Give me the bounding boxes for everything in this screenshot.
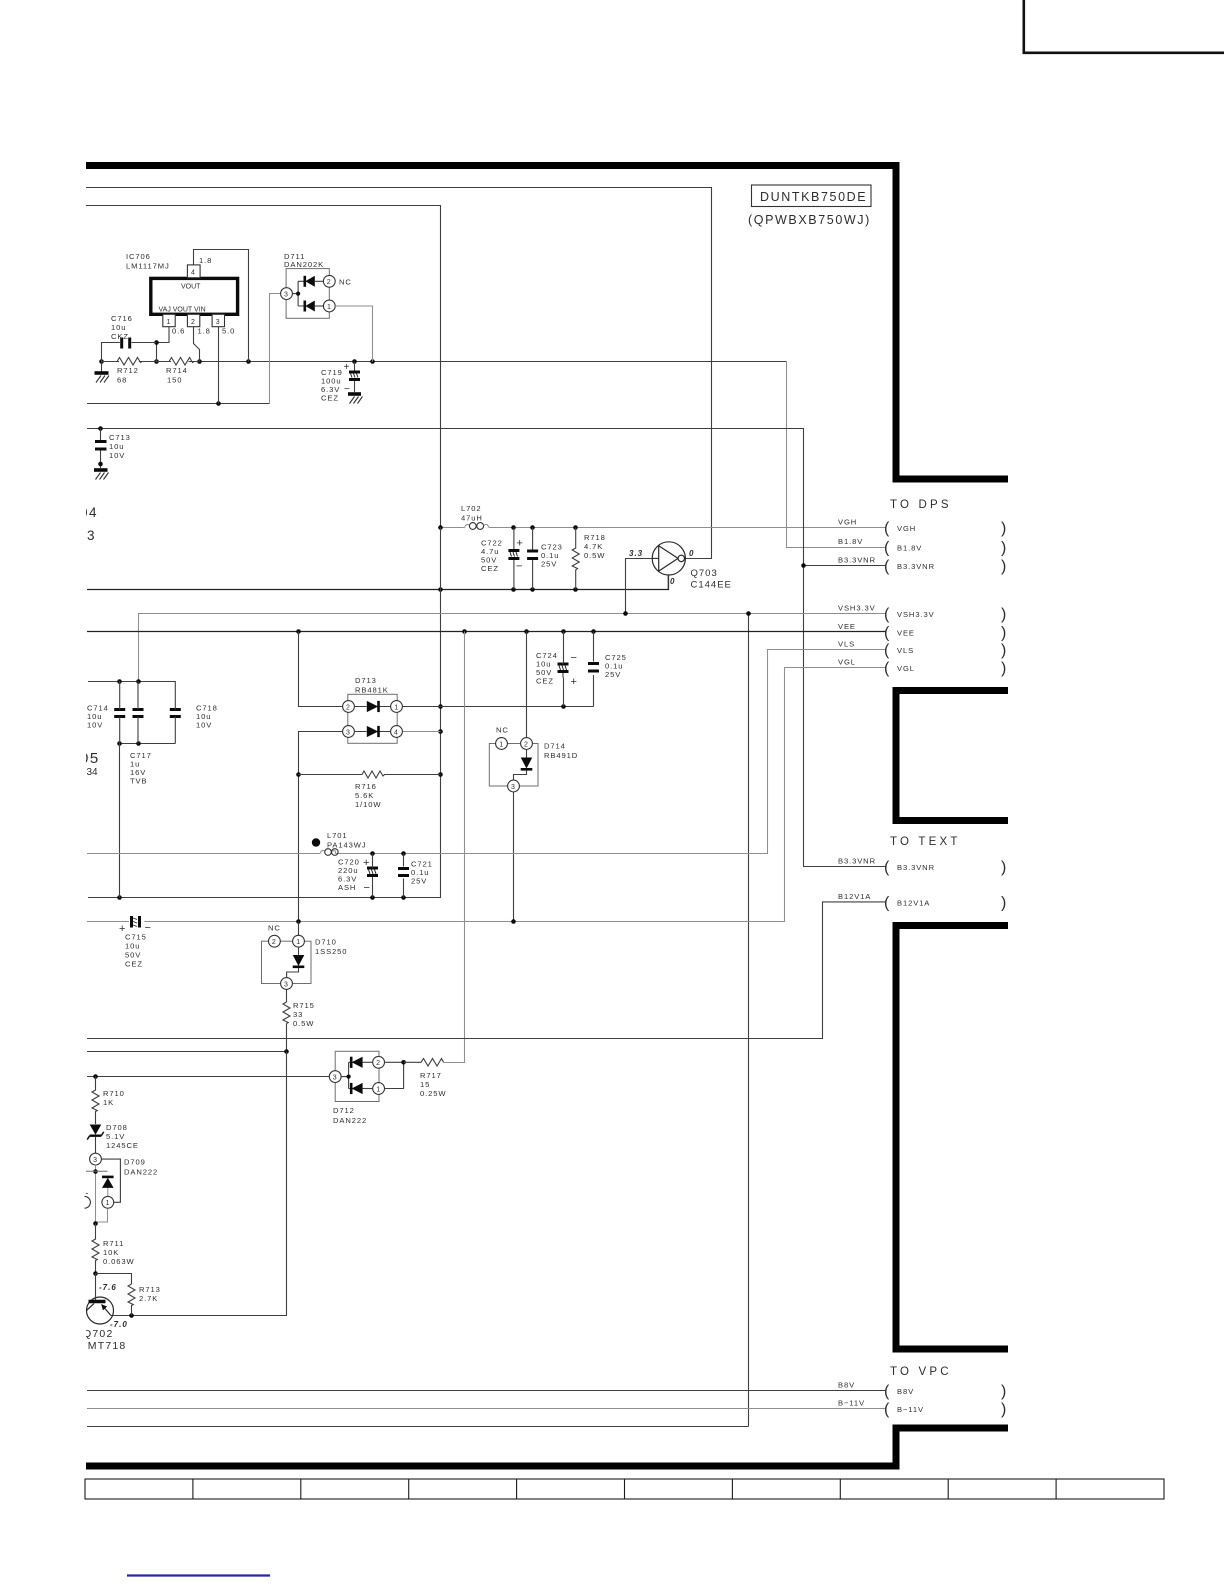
wire C720 stems — [372, 854, 374, 898]
svg-text:25V: 25V — [411, 877, 427, 886]
svg-text:+: + — [517, 538, 523, 550]
wire D711 pin1 to 1.8 rail (gray) — [335, 306, 372, 362]
svg-text:): ) — [1001, 1401, 1006, 1418]
wire riser to D711 pin3 (gray) — [270, 294, 281, 404]
svg-text:D714: D714 — [544, 742, 566, 751]
svg-text:5.6K: 5.6K — [355, 791, 374, 800]
svg-text:R717: R717 — [420, 1071, 442, 1080]
svg-text:1SS250: 1SS250 — [315, 947, 347, 956]
svg-text:VAJ VOUT VIN: VAJ VOUT VIN — [159, 307, 206, 314]
svg-text:R714: R714 — [166, 366, 188, 375]
D714 internal diode — [514, 749, 533, 780]
svg-text:C713: C713 — [109, 433, 131, 442]
svg-text:D712: D712 — [333, 1106, 355, 1115]
node dot R713 foot on emitter row — [129, 1313, 134, 1318]
node dot R710 top — [93, 1074, 98, 1079]
wire D714 pin3 drop to VGL rail — [513, 792, 515, 922]
svg-text:TVB: TVB — [130, 777, 147, 786]
D711 diode a (to pin2) — [305, 276, 324, 287]
svg-text:(: ( — [884, 1383, 890, 1400]
svg-text:(: ( — [884, 624, 890, 641]
D711 pin 1 circle — [323, 300, 335, 312]
TO VPC notch bottom arm — [893, 1425, 1009, 1432]
svg-text:10u: 10u — [109, 442, 124, 451]
svg-text:3: 3 — [346, 729, 350, 736]
node dots L701 rail — [370, 851, 406, 856]
svg-text:10V: 10V — [109, 451, 125, 460]
svg-text:4: 4 — [191, 270, 195, 277]
D710 internal diode — [287, 947, 305, 978]
svg-text:50V: 50V — [125, 951, 141, 960]
D710 pin 1 circle — [293, 935, 305, 947]
right border lower stub — [893, 1425, 900, 1467]
svg-text:): ) — [1001, 1383, 1006, 1400]
svg-text:(: ( — [884, 606, 890, 623]
svg-text:3: 3 — [333, 1074, 337, 1081]
wire B8V line y=1390.6 — [87, 1390, 887, 1392]
L701 polarity dot — [312, 838, 320, 846]
wire base node to R713 — [96, 1274, 132, 1285]
svg-text:1245CE: 1245CE — [106, 1141, 139, 1150]
right border segment between TEXT and VPC notches — [893, 922, 900, 1353]
svg-text:25V: 25V — [605, 670, 621, 679]
svg-text:): ) — [1001, 606, 1006, 623]
resistor R710 vertical — [92, 1077, 99, 1125]
node dots VSH rail — [623, 611, 751, 616]
D711 pin 3 circle — [281, 288, 293, 300]
capacitor C722 electrolytic — [508, 528, 519, 590]
svg-text:R718: R718 — [584, 533, 606, 542]
svg-text:VGH: VGH — [838, 518, 857, 527]
node dots C714 bottom rail — [117, 741, 141, 746]
svg-text:B8V: B8V — [897, 1387, 914, 1396]
svg-text:10V: 10V — [196, 721, 212, 730]
svg-text:−: − — [516, 561, 522, 573]
ground under R712 — [95, 362, 110, 383]
wire rail y=589.2 — [87, 575, 669, 589]
svg-text:0.25W: 0.25W — [420, 1089, 446, 1098]
wire pin1 to C716 node — [157, 327, 170, 362]
TO TEXT notch top arm — [893, 817, 1009, 824]
svg-text:): ) — [1001, 894, 1006, 911]
svg-text:CEZ: CEZ — [321, 394, 339, 403]
svg-text:D713: D713 — [355, 676, 377, 685]
svg-text:+: + — [344, 362, 351, 373]
wire B1.8V tail to connector (gray) — [787, 362, 887, 548]
svg-text:Q702: Q702 — [83, 1328, 114, 1340]
svg-text:1/10W: 1/10W — [355, 800, 381, 809]
svg-text:B−11V: B−11V — [838, 1399, 865, 1408]
capacitor C714 (left of group) — [114, 681, 125, 743]
svg-text:B3.3VNR: B3.3VNR — [838, 555, 876, 564]
resistor R712 — [102, 358, 157, 366]
svg-text:): ) — [1001, 540, 1006, 557]
svg-text:IC706: IC706 — [126, 252, 151, 261]
svg-text:150: 150 — [167, 376, 182, 385]
right border segment between DPS and TEXT notches — [893, 687, 900, 824]
svg-text:RB481K: RB481K — [355, 686, 389, 695]
svg-text:R712: R712 — [117, 366, 139, 375]
D712 diode b (pin1) cathode left — [351, 1083, 373, 1094]
D713 pin 3 circle — [343, 726, 355, 738]
svg-text:VLS: VLS — [838, 640, 855, 649]
svg-text:B1.8V: B1.8V — [838, 537, 863, 546]
svg-text:D710: D710 — [315, 938, 337, 947]
TO DPS notch top arm — [893, 476, 1009, 483]
node dots on 1.8V rail — [99, 359, 375, 364]
capacitor C718 (right of group) — [170, 681, 181, 743]
connector VGL — [838, 658, 1006, 678]
svg-text:CEZ: CEZ — [481, 564, 499, 573]
resistor R717 — [404, 1059, 444, 1067]
svg-text:33: 33 — [293, 1010, 303, 1019]
wire C725 stems — [593, 632, 595, 707]
IC706 pin 4 box — [187, 265, 200, 278]
svg-text:D709: D709 — [124, 1158, 146, 1167]
svg-text:(: ( — [884, 520, 890, 537]
svg-text:DUNTKB750DE: DUNTKB750DE — [760, 190, 867, 204]
svg-text:3: 3 — [216, 319, 220, 326]
svg-text:15: 15 — [420, 1080, 430, 1089]
wire VSH riser x=748.3 down to bottom line y=1426 — [87, 614, 749, 1427]
connector B-11V — [838, 1399, 1006, 1419]
connector VSH3.3V — [838, 604, 1006, 624]
svg-text:(: ( — [884, 894, 890, 911]
svg-text:5.0: 5.0 — [222, 327, 235, 336]
svg-text:1.8: 1.8 — [198, 327, 211, 336]
svg-text:C144EE: C144EE — [691, 580, 732, 591]
resistor R714 — [157, 358, 200, 366]
wire VSH3.3V rail y=613.7 (gray) — [139, 614, 887, 682]
wire net VIN 5.0 rail y=403.5 — [87, 403, 270, 405]
schematic sheet top border — [86, 162, 900, 169]
svg-text:D708: D708 — [106, 1123, 128, 1132]
svg-text:VLS: VLS — [897, 646, 914, 655]
wire pin4 riser to 1.8 net — [194, 250, 249, 362]
svg-text:0: 0 — [670, 577, 675, 586]
svg-text:VGL: VGL — [897, 664, 915, 673]
board name box DUNTKB750DE — [752, 185, 872, 207]
node dot R715 foot — [284, 1049, 289, 1054]
svg-text:0.5W: 0.5W — [293, 1019, 314, 1028]
D710 pin 3 circle — [281, 978, 293, 990]
svg-text:VGH: VGH — [897, 524, 916, 533]
svg-text:0.063W: 0.063W — [103, 1257, 135, 1266]
svg-text:): ) — [1001, 642, 1006, 659]
adjacent sheet corner mark top-right — [1024, 0, 1224, 53]
svg-text:VSH3.3V: VSH3.3V — [838, 604, 876, 613]
svg-text:1: 1 — [499, 741, 503, 748]
node dot D709 return — [93, 1221, 98, 1226]
svg-text:NC: NC — [496, 726, 509, 735]
svg-text:3.3: 3.3 — [629, 549, 643, 558]
svg-text:LM1117MJ: LM1117MJ — [126, 262, 170, 271]
capacitor C717 (middle of group) — [133, 681, 144, 743]
connector VEE — [838, 622, 1006, 642]
wire D709 pin1 return (gray) — [96, 1208, 108, 1222]
svg-text:DAN222: DAN222 — [124, 1168, 158, 1177]
svg-text:VEE: VEE — [897, 628, 915, 637]
wire D713 pin4 row (gray) — [403, 731, 441, 733]
wire x=440 spine down to C720/C721 bottom rail y=897.3 — [88, 528, 441, 898]
svg-text:NC: NC — [268, 924, 281, 933]
capacitor C716 plates — [122, 338, 130, 349]
TO VPC notch top arm — [893, 1346, 1009, 1353]
svg-text:Q703: Q703 — [691, 568, 718, 579]
diode D714 RB491D outline box — [489, 744, 538, 787]
wire pin2 down to 1.8 rail — [194, 327, 200, 362]
footer revision table — [85, 1479, 1164, 1499]
node dot pins join — [401, 1060, 406, 1065]
svg-text:2: 2 — [376, 1060, 380, 1067]
node dots on VGL rail — [296, 919, 516, 924]
D709 internal diode cathode up — [102, 1177, 114, 1196]
svg-text:(: ( — [884, 1401, 890, 1418]
node dot pin3 VIN drop — [216, 401, 221, 406]
node dot pin1/C716 — [154, 340, 159, 345]
connector B3.3VNR (TEXT) — [838, 857, 1006, 877]
D711 internal common cathode wiring — [292, 281, 303, 306]
ground under C713 — [94, 470, 109, 480]
svg-text:R713: R713 — [139, 1285, 161, 1294]
svg-text:TO TEXT: TO TEXT — [890, 836, 961, 848]
wire D713 pin1 row y=706.4 — [403, 706, 594, 708]
svg-text:TO VPC: TO VPC — [890, 1366, 952, 1378]
svg-text:): ) — [1001, 859, 1006, 876]
svg-text:R715: R715 — [293, 1001, 315, 1010]
svg-text:(: ( — [884, 540, 890, 557]
svg-text:2: 2 — [272, 939, 276, 946]
node dots pin1 row — [561, 704, 566, 709]
resistor R718 vertical — [572, 528, 579, 590]
svg-text:CEZ: CEZ — [125, 960, 143, 969]
svg-text:10V: 10V — [87, 721, 103, 730]
IC706 pin 1 box — [163, 314, 175, 326]
svg-text:B1.8V: B1.8V — [897, 544, 922, 553]
svg-text:68: 68 — [117, 376, 127, 385]
page cut mask left edge (emulates sheet cut at x=86) — [0, 495, 86, 1354]
capacitor C715 electrolytic inline — [132, 916, 140, 928]
capacitor C723 — [527, 528, 538, 590]
regulator IC706 LM1117MJ body — [151, 278, 238, 314]
svg-text:DAN202K: DAN202K — [284, 260, 324, 269]
D713 diode b pins 3-4 — [354, 726, 390, 737]
connector B3.3VNR (DPS) — [838, 555, 1006, 575]
connector VGH — [838, 518, 1006, 538]
svg-text:1K: 1K — [103, 1098, 114, 1107]
D709 pin 2 circle cut at page edge — [85, 1196, 91, 1208]
wire C721 stems — [403, 854, 405, 898]
svg-text:B8V: B8V — [838, 1381, 855, 1390]
svg-text:+: + — [571, 676, 577, 688]
D714 pin 2 circle — [521, 738, 533, 750]
zener diode D708 — [87, 1125, 104, 1154]
schematic sheet right border upper segment — [893, 162, 900, 479]
svg-text:UMT718: UMT718 — [79, 1340, 126, 1352]
resistor R715 vertical — [283, 1002, 290, 1024]
svg-text:3: 3 — [93, 1157, 97, 1164]
svg-text:RB491D: RB491D — [544, 751, 578, 760]
wire D714 pin2 feed from VEE — [526, 632, 528, 738]
svg-text:C716: C716 — [111, 314, 133, 323]
dual diode D712 DAN222 outline box — [335, 1051, 379, 1101]
svg-text:1: 1 — [296, 939, 300, 946]
svg-text:1: 1 — [376, 1086, 380, 1093]
svg-text:1: 1 — [167, 319, 171, 326]
node dots rail y=589.2 — [438, 587, 578, 592]
wire D709 center column (gray) — [95, 1165, 97, 1224]
svg-text:2: 2 — [191, 319, 195, 326]
svg-text:R711: R711 — [103, 1239, 124, 1248]
svg-text:47uH: 47uH — [461, 514, 483, 523]
D713 pin 4 circle — [391, 726, 403, 738]
D712 diode a (pin2) cathode left — [351, 1057, 373, 1068]
svg-text:3: 3 — [87, 528, 95, 543]
wire R715 spine down to Q702 emitter row — [111, 1052, 287, 1316]
wire B12V1A net: connector left then down x=822.3 then y=1037.7 to cut edge — [87, 902, 887, 1039]
svg-text:B3.3VNR: B3.3VNR — [838, 857, 876, 866]
wire pin3 down crossing to VIN rail — [218, 327, 220, 404]
svg-text:10u: 10u — [111, 323, 126, 332]
D712 internal common anode wiring — [341, 1062, 351, 1088]
IC706 pin 3 box — [212, 314, 224, 326]
svg-text:+: + — [363, 857, 369, 869]
wire C714 group top rail y=681 — [88, 681, 176, 683]
wire net B3.3VNR y=428 across to x=803.3 — [87, 429, 887, 867]
svg-text:L702: L702 — [461, 504, 482, 513]
svg-text:−: − — [571, 652, 577, 664]
svg-text:-7.6: -7.6 — [99, 1283, 117, 1292]
svg-text:NC: NC — [339, 278, 352, 287]
wire D713 pin2 feed from VEE rail — [299, 632, 343, 707]
TO TEXT notch bottom arm — [893, 922, 1009, 929]
wire VGL net: connector to x=784.8 then C715/D710 rail y=921.7 (gray) — [87, 668, 887, 922]
wire link x=119.7 from C714 rail down to y=897.3 — [119, 744, 121, 898]
svg-text:R710: R710 — [103, 1089, 125, 1098]
svg-text:): ) — [1001, 520, 1006, 537]
transistor Q702 UMT718 — [87, 1274, 114, 1325]
diode D709 DAN222 pin 3 circle — [90, 1153, 102, 1165]
capacitor C725 — [588, 664, 599, 672]
D714 pin 1 circle (NC) — [496, 738, 508, 750]
connector B8V — [838, 1381, 1006, 1401]
ground under C719 — [348, 394, 363, 404]
wire VEE rail y=631.8 — [87, 631, 887, 633]
D709 pin 1 circle — [102, 1196, 114, 1208]
svg-text:VGL: VGL — [838, 658, 856, 667]
svg-text:0.6: 0.6 — [172, 327, 185, 336]
svg-text:B3.3VNR: B3.3VNR — [897, 863, 935, 872]
svg-text:2: 2 — [346, 704, 350, 711]
D712 pin 3 circle — [329, 1071, 341, 1083]
capacitor C721 — [398, 869, 409, 876]
svg-text:0.5W: 0.5W — [584, 551, 605, 560]
svg-text:(: ( — [884, 642, 890, 659]
wire stub y=1051.4 from cut edge to R715 foot — [87, 1051, 287, 1053]
capacitor C724 electrolytic — [558, 663, 569, 678]
D714 pin 3 circle — [508, 780, 520, 792]
connector B1.8V — [838, 537, 1006, 557]
svg-text:2: 2 — [524, 741, 528, 748]
svg-text:10K: 10K — [103, 1248, 119, 1257]
resistor R713 vertical — [128, 1284, 135, 1315]
D712 pin 1 circle — [373, 1083, 385, 1095]
svg-text:B12V1A: B12V1A — [897, 898, 930, 907]
dual diode D711 DAN202K outline box — [286, 269, 329, 319]
svg-text:VEE: VEE — [838, 622, 856, 631]
wire net top rail y=205 feeding L702 column x=440 — [86, 206, 441, 528]
D711 pin 2 circle — [323, 275, 335, 287]
transistor Q703 C144EE (buffer symbol) — [652, 542, 685, 589]
D710 pin 2 circle (NC) — [269, 935, 281, 947]
node dot R711 foot / base node — [93, 1271, 98, 1276]
wire VGH rail y=527.5 (gray) — [441, 527, 887, 529]
svg-text:0: 0 — [689, 549, 694, 558]
svg-text:): ) — [1001, 624, 1006, 641]
svg-text:(: ( — [884, 660, 890, 677]
D713 diode a pins 2-1 — [354, 701, 390, 712]
svg-text:2.7K: 2.7K — [139, 1294, 158, 1303]
connector VLS — [838, 640, 1006, 660]
node dot D711 common — [296, 292, 300, 296]
svg-text:5.1V: 5.1V — [106, 1132, 125, 1141]
inductor L702 47uH — [465, 523, 489, 530]
D712 pin 2 circle — [373, 1056, 385, 1068]
wire 1.8V rail y=361.3 — [102, 361, 787, 363]
capacitor C719 electrolytic — [349, 362, 360, 393]
wire B-11V line y=1408.5 (gray) — [87, 1408, 887, 1410]
resistor R711 vertical — [92, 1224, 99, 1274]
svg-text:1: 1 — [327, 304, 331, 311]
wire net Q703 collector to top rail y=187 — [86, 188, 712, 559]
svg-text:PA143WJ: PA143WJ — [327, 841, 367, 850]
svg-text:(QPWBXB750WJ): (QPWBXB750WJ) — [748, 213, 871, 227]
svg-text:(: ( — [884, 558, 890, 575]
capacitor C713 — [95, 429, 107, 469]
D713 pin 2 circle — [343, 701, 355, 713]
node dots C714 top rail — [117, 679, 141, 684]
svg-text:): ) — [1001, 558, 1006, 575]
svg-text:1: 1 — [394, 704, 398, 711]
TO DPS notch bottom arm — [893, 687, 1009, 694]
wire C724 stems — [563, 632, 565, 707]
svg-text:4.7K: 4.7K — [584, 542, 603, 551]
svg-text:10u: 10u — [125, 942, 140, 951]
svg-text:ASH: ASH — [338, 883, 356, 892]
D711 diode b (to pin1) — [305, 301, 324, 312]
svg-text:): ) — [1001, 660, 1006, 677]
svg-text:VOUT: VOUT — [181, 284, 201, 291]
svg-text:25V: 25V — [541, 560, 557, 569]
svg-text:1: 1 — [106, 1200, 110, 1207]
node dot below D709 pin3 — [93, 1169, 98, 1174]
node dots B3.3VNR net — [98, 426, 806, 568]
svg-text:3: 3 — [284, 981, 288, 988]
svg-text:C715: C715 — [125, 933, 147, 942]
node dots VEE rail — [296, 629, 596, 634]
schematic sheet bottom border — [86, 1463, 900, 1470]
wire D709 pin3 loop to pin1 — [101, 1159, 120, 1202]
svg-text:B−11V: B−11V — [897, 1405, 924, 1414]
svg-text:3: 3 — [511, 784, 515, 791]
D709 outline box top edge (gray, cut at page edge) — [86, 1171, 108, 1193]
svg-text:2: 2 — [327, 279, 331, 286]
blue revision underline bottom-left — [127, 1574, 270, 1576]
svg-text:TO DPS: TO DPS — [890, 499, 952, 511]
resistor R716 — [299, 771, 441, 778]
svg-text:DAN222: DAN222 — [333, 1116, 367, 1125]
wire Q703 input drop from 3.3 — [626, 559, 652, 614]
